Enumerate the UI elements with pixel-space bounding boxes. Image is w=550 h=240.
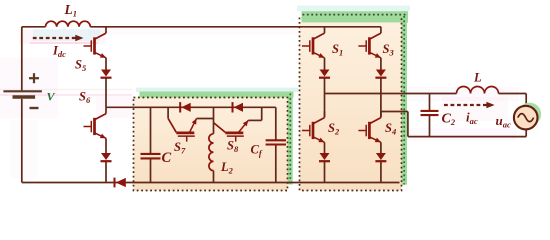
- svg-text:L: L: [473, 71, 482, 85]
- svg-text:C: C: [162, 150, 172, 166]
- svg-text:V: V: [47, 90, 56, 104]
